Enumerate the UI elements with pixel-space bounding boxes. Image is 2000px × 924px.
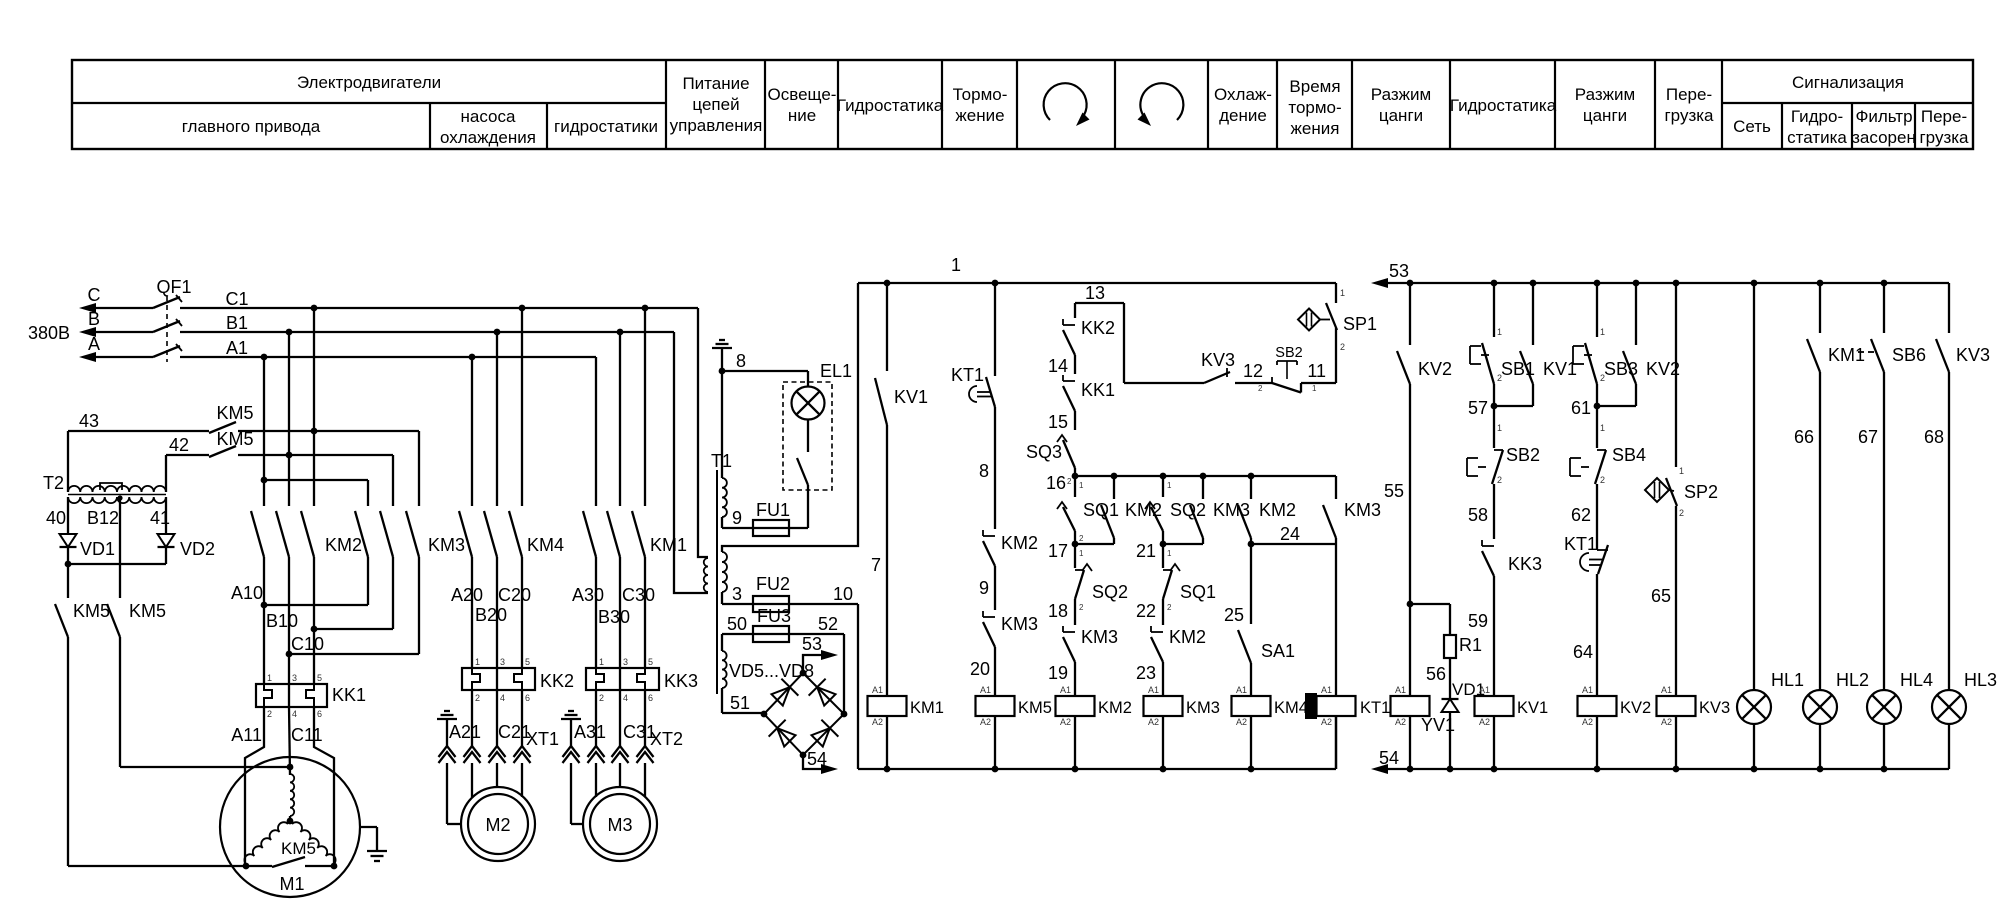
svg-text:A11: A11 <box>231 725 262 745</box>
contact SQ3 <box>1057 435 1067 442</box>
wire 3 and fuse FU2 <box>721 592 723 604</box>
svg-text:59: 59 <box>1468 611 1488 631</box>
wire 68 lamp HL3 <box>1948 372 1950 690</box>
svg-text:Время: Время <box>1289 77 1340 96</box>
svg-text:6: 6 <box>317 709 322 719</box>
svg-text:KK2: KK2 <box>1081 318 1115 338</box>
svg-text:QF1: QF1 <box>156 277 191 297</box>
svg-text:SQ1: SQ1 <box>1083 500 1119 520</box>
svg-text:Пере-: Пере- <box>1921 107 1967 126</box>
svg-text:A2: A2 <box>1321 717 1332 727</box>
node 17 <box>1072 541 1079 548</box>
svg-text:A2: A2 <box>1395 717 1406 727</box>
wire C11 <box>314 707 334 867</box>
svg-text:HL4: HL4 <box>1900 670 1933 690</box>
wire 62 <box>1596 484 1598 550</box>
wires KM1 outputs to KK3 <box>595 557 597 668</box>
wire 50 and fuse FU3 <box>721 634 723 651</box>
svg-text:жения: жения <box>1291 119 1340 138</box>
svg-text:KK1: KK1 <box>1081 380 1115 400</box>
svg-text:VD2: VD2 <box>180 539 215 559</box>
svg-text:A1: A1 <box>1148 685 1159 695</box>
button SB4 NC <box>1596 406 1598 448</box>
contact KM2 NC b <box>1150 626 1152 632</box>
wire A11 <box>245 707 264 867</box>
svg-text:KM2: KM2 <box>1259 500 1296 520</box>
contact SQ2 b <box>1162 476 1164 497</box>
thermal relay KK3 <box>586 668 659 690</box>
contact KM3 NC <box>982 611 984 617</box>
wire B10 <box>314 628 393 630</box>
coil KT1 with flag <box>1305 693 1317 719</box>
svg-text:1: 1 <box>1079 549 1084 558</box>
svg-text:грузка: грузка <box>1919 128 1969 147</box>
svg-text:C11: C11 <box>291 725 323 745</box>
wire A10 <box>264 604 368 606</box>
contact KM5 right <box>107 604 120 637</box>
svg-text:KM2: KM2 <box>1169 627 1206 647</box>
svg-text:12: 12 <box>1243 361 1263 381</box>
svg-text:C10: C10 <box>291 634 324 654</box>
svg-text:SA1: SA1 <box>1261 641 1295 661</box>
svg-text:KK3: KK3 <box>1508 554 1542 574</box>
wire 24 <box>1248 541 1255 548</box>
svg-text:9: 9 <box>979 578 989 598</box>
svg-text:5: 5 <box>525 657 530 667</box>
button SB1 <box>1493 283 1495 337</box>
svg-text:1: 1 <box>1167 481 1172 490</box>
svg-text:KM5: KM5 <box>216 429 253 449</box>
EL1 switch <box>807 420 809 453</box>
bottom wire 54 right section <box>1371 764 1388 774</box>
svg-text:A1: A1 <box>1060 685 1071 695</box>
svg-text:M1: M1 <box>279 874 304 894</box>
svg-text:YV1: YV1 <box>1421 715 1455 735</box>
svg-text:HL2: HL2 <box>1836 670 1869 690</box>
svg-text:8: 8 <box>736 351 746 371</box>
svg-text:FU2: FU2 <box>756 574 790 594</box>
svg-text:1: 1 <box>1497 423 1502 433</box>
svg-text:6: 6 <box>648 693 653 703</box>
contact KK3 NC aux <box>1481 540 1483 546</box>
node 61 <box>1594 403 1601 410</box>
contact KM3 aux b <box>1335 476 1337 499</box>
wire A-phase to KM3 pole <box>264 479 368 481</box>
svg-text:1: 1 <box>1679 466 1684 476</box>
svg-text:55: 55 <box>1384 481 1404 501</box>
svg-text:KM5: KM5 <box>129 601 166 621</box>
svg-text:SP1: SP1 <box>1343 314 1377 334</box>
svg-text:T2: T2 <box>43 473 64 493</box>
lamp EL1 dashed enclosure <box>783 382 832 490</box>
svg-text:KK2: KK2 <box>540 671 574 691</box>
svg-text:Пере-: Пере- <box>1666 85 1712 104</box>
svg-text:C21: C21 <box>498 722 531 742</box>
svg-text:R1: R1 <box>1459 635 1482 655</box>
svg-text:Сеть: Сеть <box>1733 117 1771 136</box>
svg-text:19: 19 <box>1048 663 1068 683</box>
svg-text:B30: B30 <box>598 607 630 627</box>
svg-text:10: 10 <box>833 584 853 604</box>
table: outer frame <box>72 60 1973 149</box>
svg-text:KM5: KM5 <box>1018 699 1052 717</box>
contact KM5 on wire 43 <box>209 422 236 433</box>
coil KM5 <box>976 696 1015 716</box>
contact KV2 aux b <box>1635 283 1637 345</box>
svg-text:C: C <box>88 285 101 305</box>
svg-text:KM1: KM1 <box>910 699 944 717</box>
svg-text:KM1: KM1 <box>1828 345 1865 365</box>
contactor KM4 poles <box>471 357 473 506</box>
svg-text:ние: ние <box>788 106 816 125</box>
svg-text:15: 15 <box>1048 412 1068 432</box>
node 57 <box>1491 403 1498 410</box>
wire 64 <box>1596 574 1598 696</box>
svg-text:62: 62 <box>1571 505 1591 525</box>
solenoid YV1 <box>1409 604 1411 696</box>
wire 8 label <box>994 407 996 529</box>
wire C1 drop to T1 <box>698 308 708 557</box>
lamp HL1 branch <box>1753 283 1755 690</box>
control bus 53 <box>1371 278 1388 288</box>
M1 winding vertical <box>290 774 294 816</box>
contact KV1 aux <box>1532 283 1534 345</box>
wires KM3 outputs <box>367 557 369 605</box>
wire 23 <box>1162 662 1164 696</box>
svg-text:Разжим: Разжим <box>1575 85 1635 104</box>
svg-text:1: 1 <box>475 657 480 667</box>
contact KK1 NC <box>1062 375 1064 381</box>
wire 43 <box>68 430 209 432</box>
svg-text:M2: M2 <box>485 815 510 835</box>
svg-text:43: 43 <box>79 411 99 431</box>
svg-text:KV1: KV1 <box>1543 359 1577 379</box>
svg-text:22: 22 <box>1136 601 1156 621</box>
svg-text:14: 14 <box>1048 356 1068 376</box>
contact KM2 aux b <box>1250 476 1252 499</box>
wire 8 <box>719 368 726 375</box>
svg-text:3: 3 <box>623 657 628 667</box>
svg-text:KK3: KK3 <box>664 671 698 691</box>
svg-text:5: 5 <box>648 657 653 667</box>
svg-text:KV3: KV3 <box>1956 345 1990 365</box>
M2 frame ground wire <box>446 763 448 824</box>
bottom wire 54 left section <box>858 768 1336 770</box>
svg-text:KV3: KV3 <box>1201 350 1235 370</box>
svg-text:A2: A2 <box>1236 717 1247 727</box>
svg-text:3: 3 <box>500 657 505 667</box>
contact KV3 horizontal <box>1204 372 1230 383</box>
svg-text:A: A <box>88 334 100 354</box>
contact KT1 time <box>994 283 996 376</box>
contactor KM2 poles <box>263 357 265 506</box>
svg-text:23: 23 <box>1136 663 1156 683</box>
contact KM5 left <box>67 564 69 598</box>
svg-text:16: 16 <box>1046 473 1066 493</box>
svg-text:2: 2 <box>1079 534 1084 543</box>
wire 11 <box>1301 382 1336 384</box>
svg-text:B12: B12 <box>87 508 119 528</box>
wire 25 and switch SA1 <box>1250 544 1252 624</box>
svg-text:A1: A1 <box>1395 685 1406 695</box>
svg-text:гидростатики: гидростатики <box>554 117 658 136</box>
svg-text:2: 2 <box>267 709 272 719</box>
thermal relay KK2 <box>462 668 535 690</box>
wire 58 <box>1493 484 1495 539</box>
M1 winding right <box>292 822 336 864</box>
svg-text:KM3: KM3 <box>1001 614 1038 634</box>
contact KV1 <box>886 283 888 371</box>
coil KV1 <box>1475 696 1514 716</box>
wire 54 output <box>803 755 821 769</box>
svg-text:FU1: FU1 <box>756 500 790 520</box>
svg-text:1: 1 <box>1600 423 1605 433</box>
svg-text:HL1: HL1 <box>1771 670 1804 690</box>
svg-text:A2: A2 <box>872 717 883 727</box>
svg-text:2: 2 <box>599 693 604 703</box>
control bus 1 <box>858 282 1336 284</box>
pressure switch SP1 <box>1335 283 1337 303</box>
wire VD1-VD2 junction <box>68 563 166 565</box>
svg-text:5: 5 <box>317 673 322 683</box>
thermal relay KK1 <box>256 684 327 707</box>
svg-text:Гидростатика: Гидростатика <box>837 96 944 115</box>
svg-text:M3: M3 <box>607 815 632 835</box>
svg-text:50: 50 <box>727 614 747 634</box>
wire 56 <box>1449 658 1451 699</box>
svg-text:Гидро-: Гидро- <box>1791 107 1843 126</box>
svg-text:58: 58 <box>1468 505 1488 525</box>
phase C input arrow <box>79 303 96 313</box>
button SB3 <box>1596 283 1598 337</box>
svg-text:13: 13 <box>1085 283 1105 303</box>
svg-text:VD1: VD1 <box>80 539 115 559</box>
coil KM4 <box>1232 696 1271 716</box>
svg-text:A1: A1 <box>872 685 883 695</box>
node 21 <box>1160 541 1167 548</box>
svg-text:2: 2 <box>1679 508 1684 518</box>
svg-text:C31: C31 <box>623 722 656 742</box>
wire KM5 to motor delta <box>68 865 246 867</box>
svg-text:2: 2 <box>1079 603 1084 612</box>
wire 20 <box>994 647 996 696</box>
wires KK3 to M3 <box>595 690 597 746</box>
svg-text:54: 54 <box>1379 748 1399 768</box>
svg-text:64: 64 <box>1573 642 1593 662</box>
svg-text:A30: A30 <box>572 585 604 605</box>
svg-text:6: 6 <box>525 693 530 703</box>
svg-text:1: 1 <box>1312 384 1317 393</box>
svg-text:7: 7 <box>871 555 881 575</box>
svg-text:SB2: SB2 <box>1275 345 1302 361</box>
coil KV3 <box>1657 696 1696 716</box>
svg-text:65: 65 <box>1651 586 1671 606</box>
junction dots on phase buses <box>311 305 318 312</box>
svg-text:42: 42 <box>169 435 189 455</box>
wire 22 <box>1162 599 1164 625</box>
coil KV2 <box>1578 696 1617 716</box>
svg-text:KM2: KM2 <box>1001 533 1038 553</box>
motor M1 <box>220 757 360 897</box>
svg-text:8: 8 <box>979 461 989 481</box>
wire from 13 to KV3 <box>1124 382 1204 384</box>
svg-text:C30: C30 <box>622 585 655 605</box>
svg-text:A2: A2 <box>1479 717 1490 727</box>
svg-text:B1: B1 <box>226 313 248 333</box>
contact KT1 delayed <box>1597 549 1608 551</box>
svg-text:цанги: цанги <box>1583 106 1627 125</box>
svg-text:52: 52 <box>818 614 838 634</box>
svg-text:Гидростатика: Гидростатика <box>1450 96 1557 115</box>
wires KM4 outputs to KK2 <box>471 557 473 668</box>
svg-text:1: 1 <box>1079 481 1084 490</box>
M1 frame ground <box>359 826 377 828</box>
svg-text:KV2: KV2 <box>1620 699 1651 717</box>
svg-text:засорен: засорен <box>1852 128 1916 147</box>
T1 secondary winding 3 <box>722 651 727 688</box>
svg-text:67: 67 <box>1858 427 1878 447</box>
svg-text:C20: C20 <box>498 585 531 605</box>
svg-text:17: 17 <box>1048 541 1068 561</box>
wire 19 <box>1074 662 1076 696</box>
svg-text:статика: статика <box>1787 128 1847 147</box>
svg-text:2: 2 <box>1340 342 1345 352</box>
wire 13 <box>1075 302 1124 304</box>
button SB2 NC <box>1493 406 1495 448</box>
wire B1 drop to T1 <box>674 332 708 593</box>
svg-text:SB2: SB2 <box>1506 445 1540 465</box>
svg-text:25: 25 <box>1224 605 1244 625</box>
svg-text:51: 51 <box>730 693 750 713</box>
svg-text:Сигнализация: Сигнализация <box>1792 73 1904 92</box>
svg-text:21: 21 <box>1136 541 1156 561</box>
svg-text:KM2: KM2 <box>1098 699 1132 717</box>
svg-text:1: 1 <box>951 255 961 275</box>
svg-text:дение: дение <box>1219 106 1267 125</box>
svg-text:Электродвигатели: Электродвигатели <box>297 73 441 92</box>
svg-text:A2: A2 <box>1582 717 1593 727</box>
svg-text:Освеще-: Освеще- <box>768 85 837 104</box>
wire 66 lamp HL2 <box>1819 372 1821 690</box>
contact KV3 aux <box>1948 283 1950 333</box>
icon: rotation arrow CCW <box>1140 83 1183 120</box>
wire 67 lamp HL4 <box>1883 372 1885 690</box>
svg-text:A1: A1 <box>226 338 248 358</box>
svg-text:KM3: KM3 <box>1344 500 1381 520</box>
svg-text:1: 1 <box>267 673 272 683</box>
table: row divider under Электродвигатели <box>72 102 666 104</box>
coil KM1 <box>868 696 907 716</box>
phase B input arrow <box>79 327 96 337</box>
button SB6 <box>1883 283 1885 333</box>
svg-text:KM5: KM5 <box>281 839 316 858</box>
svg-text:охлаждения: охлаждения <box>440 128 536 147</box>
wire C1 <box>180 307 698 309</box>
svg-text:KM3: KM3 <box>1186 699 1220 717</box>
svg-text:11: 11 <box>1307 361 1326 381</box>
node YV1 <box>1407 601 1414 608</box>
svg-text:A1: A1 <box>1321 685 1332 695</box>
coil KM3 <box>1144 696 1183 716</box>
svg-text:2: 2 <box>1067 477 1072 486</box>
ground for M2 <box>437 718 457 720</box>
svg-text:2: 2 <box>1497 475 1502 485</box>
svg-text:380В: 380В <box>28 323 70 343</box>
svg-text:2: 2 <box>1167 603 1172 612</box>
contact KM2 NC <box>982 530 984 536</box>
svg-text:Разжим: Разжим <box>1371 85 1431 104</box>
ground for M3 <box>561 718 581 720</box>
wire 53 output <box>803 655 821 673</box>
contact SQ2 NC <box>1074 544 1076 568</box>
svg-text:4: 4 <box>500 693 505 703</box>
T2 secondary tap B12 <box>117 495 122 500</box>
phase A input arrow <box>79 352 96 362</box>
wire 65 <box>1675 506 1677 696</box>
svg-text:53: 53 <box>1389 261 1409 281</box>
svg-text:C1: C1 <box>225 289 248 309</box>
svg-text:A1: A1 <box>1582 685 1593 695</box>
wire KM5 to motor star point <box>120 766 290 768</box>
svg-text:A1: A1 <box>1236 685 1247 695</box>
wires KM2 outputs to KK1 <box>263 557 265 684</box>
wire 7 to KM1 coil <box>886 425 888 696</box>
svg-text:68: 68 <box>1924 427 1944 447</box>
svg-text:EL1: EL1 <box>820 361 852 381</box>
T1 primary winding <box>704 558 708 592</box>
contactor KM3 poles <box>367 480 369 506</box>
svg-text:KV1: KV1 <box>894 387 928 407</box>
svg-text:56: 56 <box>1426 664 1446 684</box>
svg-text:1: 1 <box>1340 288 1345 298</box>
diode VD2 <box>165 520 167 534</box>
coil KM2 <box>1056 696 1095 716</box>
contactor KM1 poles <box>595 357 597 506</box>
svg-text:KM4: KM4 <box>1274 699 1308 717</box>
svg-text:грузка: грузка <box>1664 106 1714 125</box>
svg-text:A21: A21 <box>449 722 481 742</box>
svg-text:KT1: KT1 <box>1564 534 1597 554</box>
svg-text:KM5: KM5 <box>216 403 253 423</box>
svg-text:2: 2 <box>475 693 480 703</box>
wire 51 <box>721 688 723 713</box>
contact KM3 NC b <box>1062 626 1064 632</box>
icon: rotation arrow CW <box>1044 83 1087 120</box>
wire A1 <box>180 356 596 358</box>
svg-text:FU3: FU3 <box>757 606 791 626</box>
svg-text:жение: жение <box>955 106 1004 125</box>
svg-text:1: 1 <box>1497 327 1502 337</box>
svg-text:Питание: Питание <box>682 74 749 93</box>
svg-text:A2: A2 <box>980 717 991 727</box>
wire B1 <box>180 331 674 333</box>
svg-text:Охлаж-: Охлаж- <box>1214 85 1272 104</box>
svg-text:4: 4 <box>623 693 628 703</box>
svg-text:SQ1: SQ1 <box>1180 582 1216 602</box>
svg-text:B: B <box>88 309 100 329</box>
contact KM5 inside M1 <box>246 865 272 867</box>
svg-text:A1: A1 <box>1479 685 1490 695</box>
svg-text:A1: A1 <box>1661 685 1672 695</box>
svg-text:KK1: KK1 <box>332 685 366 705</box>
contact SQ1 <box>1074 476 1076 497</box>
svg-text:SQ2: SQ2 <box>1092 582 1128 602</box>
svg-text:главного привода: главного привода <box>182 117 321 136</box>
wire 15 <box>1074 411 1076 430</box>
svg-text:57: 57 <box>1468 398 1488 418</box>
svg-text:3: 3 <box>292 673 297 683</box>
svg-text:A2: A2 <box>1661 717 1672 727</box>
